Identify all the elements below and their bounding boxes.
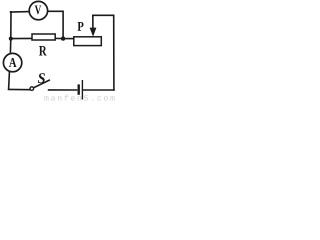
wire resistor row right to node xyxy=(55,37,63,39)
wire wiper vertical xyxy=(92,15,94,28)
resistor R body xyxy=(32,34,55,40)
wire left vertical (top corner to ammeter) xyxy=(9,12,12,53)
wire ammeter bottom to bottom-left corner xyxy=(8,72,11,89)
wire top-right horizontal xyxy=(93,14,114,16)
potentiometer label P xyxy=(78,22,84,31)
node junction dot (right of R) xyxy=(61,36,65,40)
wire voltmeter right + down to node xyxy=(48,11,63,38)
switch S blade xyxy=(33,80,49,88)
switch pivot circle xyxy=(30,87,34,91)
wire right vertical xyxy=(113,15,115,90)
wire resistor row left xyxy=(11,37,32,39)
ammeter label A xyxy=(9,58,17,67)
potentiometer P body xyxy=(74,37,102,46)
wire node to potentiometer left xyxy=(63,38,74,40)
voltmeter label V xyxy=(35,5,42,14)
switch label S xyxy=(38,73,45,83)
battery negative plate (short thick) xyxy=(77,84,79,94)
potentiometer wiper arrowhead xyxy=(90,28,97,37)
wire bottom-left horizontal to switch pivot xyxy=(9,88,30,90)
resistor label R xyxy=(39,46,47,55)
ammeter U2 (A) xyxy=(3,53,21,71)
watermark manfen5.com xyxy=(44,95,114,101)
wire top-left horizontal xyxy=(11,11,30,13)
wire switch to battery xyxy=(49,89,77,91)
battery positive plate (long thin) xyxy=(81,80,83,100)
node junction dot (left of R) xyxy=(9,37,13,41)
voltmeter U1 (V) xyxy=(29,1,47,19)
wire battery to bottom-right corner xyxy=(83,89,114,91)
